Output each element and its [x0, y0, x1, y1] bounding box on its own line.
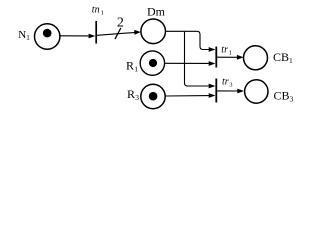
- svg-text:R: R: [127, 87, 135, 101]
- svg-text:tr: tr: [222, 77, 229, 88]
- svg-text:1: 1: [289, 56, 293, 65]
- svg-text:1: 1: [134, 65, 138, 74]
- svg-text:N: N: [18, 29, 26, 41]
- svg-text:1: 1: [229, 49, 232, 56]
- svg-text:CB: CB: [274, 89, 290, 103]
- svg-text:1: 1: [101, 10, 104, 17]
- svg-text:1: 1: [26, 34, 30, 42]
- svg-text:CB: CB: [273, 50, 289, 64]
- svg-text:3: 3: [229, 81, 232, 88]
- svg-text:3: 3: [135, 93, 139, 102]
- svg-text:3: 3: [290, 95, 294, 104]
- svg-text:2: 2: [117, 16, 124, 31]
- svg-text:Dm: Dm: [147, 5, 166, 19]
- svg-text:tn: tn: [92, 5, 100, 16]
- svg-text:R: R: [126, 59, 134, 73]
- svg-text:tr: tr: [221, 45, 228, 56]
